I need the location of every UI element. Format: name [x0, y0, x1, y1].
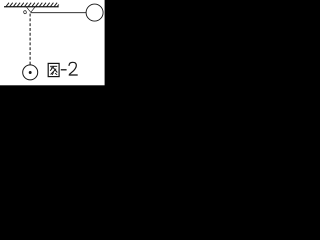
ball right [86, 4, 103, 21]
ceiling line [4, 6, 59, 8]
caption digit 2 [69, 62, 76, 74]
caption hyphen [61, 69, 67, 71]
dashed vertical string [29, 14, 31, 65]
ball bottom [23, 65, 38, 80]
caption glyph tu (figure) [48, 63, 59, 76]
ceiling hatching [6, 3, 59, 7]
pivot triangle bracket [26, 7, 35, 12]
ball bottom center dot [29, 71, 32, 74]
white drawing area [0, 0, 105, 85]
string horizontal [31, 12, 86, 14]
node o label [23, 10, 26, 14]
black canvas [0, 0, 135, 101]
